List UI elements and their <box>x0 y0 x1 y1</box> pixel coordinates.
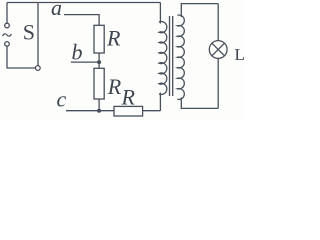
svg-text:R: R <box>121 85 136 110</box>
svg-text:S: S <box>23 20 35 45</box>
svg-text:R: R <box>107 74 122 99</box>
svg-text:a: a <box>51 0 62 20</box>
svg-text:R: R <box>106 26 121 51</box>
svg-text:b: b <box>72 40 83 65</box>
svg-text:L: L <box>235 45 245 64</box>
svg-text:c: c <box>57 87 67 112</box>
